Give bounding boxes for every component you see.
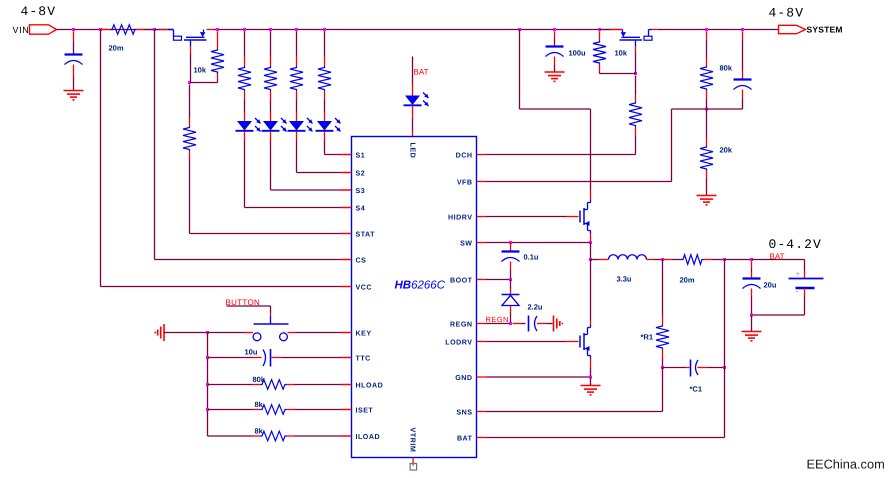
node junction 20m-right xyxy=(723,258,726,261)
node junction SW nmos xyxy=(589,241,592,244)
resistor STAT series xyxy=(183,126,196,151)
LED S1 xyxy=(316,118,341,132)
label 10k Q2 xyxy=(615,49,628,58)
wire rail to NMOS drain xyxy=(520,30,591,191)
wire SW down xyxy=(590,243,592,260)
ground power stage xyxy=(581,386,601,395)
capacitor 10u TTC leads xyxy=(208,357,352,359)
svg-text:HLOAD: HLOAD xyxy=(356,381,384,389)
node junction rail LED col S2 xyxy=(295,28,298,31)
node junction Q1 gate xyxy=(188,81,191,84)
svg-text:HIDRV: HIDRV xyxy=(448,213,472,221)
ground C-in xyxy=(64,91,84,100)
svg-text:ILOAD: ILOAD xyxy=(356,433,381,441)
capacitor 100u xyxy=(546,47,564,57)
LED S4 bottom lead xyxy=(244,131,246,207)
U1 VTRIM no-connect square xyxy=(410,464,417,471)
resistor 8k ILOAD leads xyxy=(208,435,352,437)
wire VCC horizontal xyxy=(101,286,342,288)
label 0-4.2V xyxy=(769,237,822,252)
wire Q4 source down xyxy=(590,368,592,378)
resistor LED col S1 leads xyxy=(324,31,326,99)
svg-text:0-4.2V: 0-4.2V xyxy=(769,237,822,252)
svg-text:SW: SW xyxy=(460,239,472,247)
transistor Q4 NMOS low xyxy=(580,321,591,368)
battery BT1 top lead xyxy=(804,260,806,279)
resistor 10k Q1-gate xyxy=(211,49,224,74)
label 20m xyxy=(109,44,124,53)
svg-text:SNS: SNS xyxy=(456,408,472,416)
U1 pin LED (top) xyxy=(408,143,417,159)
U1 left pins xyxy=(342,151,384,441)
wire STAT horizontal xyxy=(190,233,352,235)
U1 right pins xyxy=(445,151,486,442)
wire LED col S4 xyxy=(244,100,246,122)
LED S3 bottom lead xyxy=(270,131,272,190)
svg-text:20m: 20m xyxy=(109,44,124,53)
capacitor 2.2u leads xyxy=(513,323,553,325)
diode bootstrap leads xyxy=(510,280,512,324)
node junction VFB xyxy=(705,108,708,111)
wire CS horizontal xyxy=(155,259,342,261)
wire HIDRV xyxy=(487,216,579,218)
capacitor 10u TTC xyxy=(263,349,271,367)
label net REGN xyxy=(486,315,509,324)
wire Q1 gate down xyxy=(190,54,191,119)
label 2.2u xyxy=(528,303,543,312)
capacitor *C1 leads xyxy=(663,367,725,369)
node junction rail x154 xyxy=(153,28,156,31)
svg-text:+: + xyxy=(796,270,801,279)
wire SW to Q4 drain xyxy=(590,260,592,321)
resistor STAT series lead xyxy=(189,119,191,159)
wire 10k2 bottom to Q2 gate xyxy=(600,73,636,75)
resistor LED col S1 xyxy=(318,66,331,91)
label 8k ISET xyxy=(255,400,264,409)
resistor LED col S3 xyxy=(264,66,277,91)
wire REGN xyxy=(487,323,511,325)
LED S2 bottom lead xyxy=(296,131,298,172)
resistor LED col S2 leads xyxy=(296,31,298,99)
node junction bat gnd xyxy=(750,314,753,317)
svg-text:8k: 8k xyxy=(255,427,264,436)
wire VIN to rail xyxy=(57,29,174,31)
wire VFB node horizontal xyxy=(672,108,743,110)
wire battery to gnd node xyxy=(752,314,805,316)
resistor 8k ISET xyxy=(261,405,287,415)
LED S4 xyxy=(236,118,261,132)
svg-text:20m: 20m xyxy=(680,276,695,285)
svg-text:GND: GND xyxy=(455,374,472,382)
capacitor 0.1u xyxy=(502,252,520,262)
port SYSTEM xyxy=(779,25,843,35)
svg-text:80k: 80k xyxy=(720,64,733,73)
resistor 10k Q1-gate leads xyxy=(190,31,218,82)
svg-text:10u: 10u xyxy=(245,348,258,357)
wire SNS xyxy=(487,411,663,413)
VCC pin stub xyxy=(342,286,352,288)
capacitor 0.1u leads xyxy=(510,243,512,280)
inductor right lead xyxy=(647,259,663,261)
wire rail to CS vertical xyxy=(154,30,156,260)
node junction L-R1 xyxy=(661,258,664,261)
wire rail to VCC vertical xyxy=(100,30,102,287)
wire S4 to IC xyxy=(245,207,352,209)
svg-text:TTC: TTC xyxy=(356,354,371,362)
node junction SW cap xyxy=(509,241,512,244)
label 0.1u xyxy=(524,253,539,262)
wire to BAT node xyxy=(725,259,752,261)
LED status bottom lead xyxy=(412,106,414,137)
transistor Q2 PMOS xyxy=(600,30,660,74)
svg-text:LODRV: LODRV xyxy=(445,338,472,346)
resistor LED col S4 leads xyxy=(244,31,246,99)
svg-text:100u: 100u xyxy=(569,49,587,58)
svg-text:4-8V: 4-8V xyxy=(769,6,805,21)
ground REGN (sideways) xyxy=(554,316,563,332)
svg-text:VFB: VFB xyxy=(457,178,473,186)
wire to STAT pin xyxy=(189,159,191,234)
svg-text:-: - xyxy=(796,286,799,296)
LED S3 xyxy=(262,118,287,132)
wire SW out to inductor xyxy=(591,259,609,261)
svg-text:BAT: BAT xyxy=(414,68,429,77)
battery BT1 xyxy=(789,270,824,297)
capacitor 100u leads xyxy=(554,31,556,72)
node junction rail x519 xyxy=(518,28,521,31)
wire BAT up xyxy=(724,260,726,438)
svg-text:REGN: REGN xyxy=(450,320,473,328)
label 10k Q1 xyxy=(194,66,207,75)
wire BAT node to battery xyxy=(752,259,805,261)
svg-text:BAT: BAT xyxy=(770,252,785,261)
svg-text:20k: 20k xyxy=(720,146,733,155)
U1 pin VTRIM (bottom) xyxy=(408,428,417,453)
resistor 20m input lead xyxy=(101,29,155,31)
wire BOOT xyxy=(487,279,511,281)
resistor 8k ISET leads xyxy=(208,409,352,411)
wire gnd node down xyxy=(751,315,753,332)
button left lead xyxy=(208,332,254,334)
resistor *R1 xyxy=(656,325,669,350)
label EEChina.com xyxy=(807,457,885,472)
node junction rail x100 xyxy=(99,28,102,31)
resistor *R1 leads xyxy=(662,260,664,368)
svg-text:S4: S4 xyxy=(356,204,366,212)
capacitor VFB xyxy=(734,80,752,90)
ground KEY (sideways) xyxy=(155,324,164,341)
svg-text:2.2u: 2.2u xyxy=(528,303,543,312)
battery bottom lead xyxy=(804,288,806,315)
svg-text:BOOT: BOOT xyxy=(450,276,473,284)
label 20m out xyxy=(680,276,695,285)
resistor LED col S4 xyxy=(238,66,251,91)
capacitor C-in lead xyxy=(73,31,75,90)
svg-text:80k: 80k xyxy=(253,375,266,384)
svg-text:*C1: *C1 xyxy=(690,385,703,394)
label net BAT (battery) xyxy=(770,252,785,261)
node junction rail x217 xyxy=(216,28,219,31)
capacitor *C1 xyxy=(691,360,699,377)
resistor 80k HLOAD xyxy=(261,380,287,390)
node junction rail LED col S4 xyxy=(243,28,246,31)
transistor Q3 NMOS high xyxy=(580,191,591,242)
svg-text:SYSTEM: SYSTEM xyxy=(807,25,843,35)
wire LED col S3 xyxy=(270,100,272,122)
capacitor 2.2u xyxy=(529,316,538,332)
ground battery xyxy=(742,332,762,341)
svg-text:S1: S1 xyxy=(356,151,366,159)
svg-text:4-8V: 4-8V xyxy=(21,4,57,19)
node junction R1-C1 xyxy=(661,366,664,369)
wire S1 to IC xyxy=(325,154,352,156)
node junction rail 80k xyxy=(705,28,708,31)
LED S2 xyxy=(288,118,313,132)
resistor 20k leads xyxy=(706,109,708,196)
label 80k divider xyxy=(720,64,733,73)
node junction VIN cap xyxy=(72,28,75,31)
wire VFB to IC xyxy=(487,181,672,183)
label *C1 xyxy=(690,385,703,394)
label 4-8V input xyxy=(21,4,57,19)
svg-text:10k: 10k xyxy=(194,66,207,75)
wire GND xyxy=(487,376,591,378)
wire VFB vertical xyxy=(671,109,673,182)
svg-text:VTRIM: VTRIM xyxy=(408,428,417,453)
wire gnd lead xyxy=(590,377,592,386)
node junction rail cap742 xyxy=(741,28,744,31)
node junction HLOAD xyxy=(206,383,209,386)
svg-text:VIN: VIN xyxy=(13,25,30,35)
wire Q1 to rail2 xyxy=(214,29,623,31)
label 10u xyxy=(245,348,258,357)
CS pin stub xyxy=(342,259,352,261)
wire BUTTON label xyxy=(227,306,271,313)
op-amp U1 HB6266C body xyxy=(352,137,477,458)
label 4-8V system xyxy=(769,6,805,21)
wire rail to Q1 xyxy=(155,29,174,31)
svg-text:S2: S2 xyxy=(356,169,366,177)
wire gnd to KEY junction xyxy=(164,332,208,334)
svg-text:CS: CS xyxy=(356,256,367,264)
resistor 8k ILOAD xyxy=(261,431,287,441)
resistor 10k Q2-gate leads xyxy=(599,31,601,73)
svg-text:REGN: REGN xyxy=(486,315,509,324)
node junction Q2 gate xyxy=(634,72,637,75)
LED status xyxy=(404,93,429,107)
label *R1 xyxy=(641,333,654,342)
U1 VTRIM stub xyxy=(412,458,414,466)
svg-text:10k: 10k xyxy=(615,49,628,58)
svg-text:ISET: ISET xyxy=(356,406,374,414)
svg-text:KEY: KEY xyxy=(356,329,372,337)
resistor 80k divider leads xyxy=(706,31,708,108)
wire LODRV xyxy=(487,341,579,343)
node junction REGN xyxy=(509,322,512,325)
node junction BAT cap xyxy=(750,258,753,261)
wire button column down xyxy=(207,333,209,437)
svg-text:LED: LED xyxy=(408,143,417,159)
resistor 10k Q2-gate xyxy=(593,41,606,65)
wire SNS up xyxy=(662,368,664,412)
svg-text:S3: S3 xyxy=(356,187,366,195)
capacitor C-in xyxy=(65,55,83,65)
svg-text:BAT: BAT xyxy=(457,434,473,442)
svg-text:8k: 8k xyxy=(255,400,264,409)
wire S2 to IC xyxy=(297,172,352,174)
wire LED col S1 xyxy=(324,100,326,122)
wire BAT pin xyxy=(487,437,725,439)
label 3.3u xyxy=(617,275,632,284)
svg-text:DCH: DCH xyxy=(456,151,473,159)
wire SW horizontal xyxy=(487,242,591,244)
resistor 20m out xyxy=(682,255,704,265)
resistor DCH pull xyxy=(629,102,642,128)
node junction rail LED col S1 xyxy=(323,28,326,31)
wire DCH horizontal xyxy=(487,154,636,156)
node junction GND xyxy=(589,376,592,379)
resistor 20m input xyxy=(111,25,137,35)
svg-text:EEChina.com: EEChina.com xyxy=(807,457,885,472)
wire S3 to IC xyxy=(271,189,352,191)
wire BAT led top xyxy=(412,57,414,96)
resistor 80k divider xyxy=(700,66,713,91)
svg-text:VCC: VCC xyxy=(356,283,372,291)
inductor 3.3u xyxy=(609,255,647,260)
resistor LED col S2 xyxy=(290,66,303,91)
capacitor 20u leads xyxy=(751,261,753,315)
node junction TTC xyxy=(206,356,209,359)
resistor LED col S3 leads xyxy=(270,31,272,99)
svg-text:3.3u: 3.3u xyxy=(617,275,632,284)
svg-text:HB6266C: HB6266C xyxy=(395,280,446,292)
LED S1 bottom lead xyxy=(324,131,326,154)
capacitor 20u xyxy=(743,279,761,289)
label 80k HLOAD xyxy=(253,375,266,384)
node junction KEY xyxy=(206,331,209,334)
node junction SW out xyxy=(589,258,592,261)
resistor 20k xyxy=(700,146,713,171)
diode bootstrap xyxy=(502,295,520,306)
label 100u xyxy=(569,49,587,58)
label net BAT (led) xyxy=(414,68,429,77)
wire LED col S2 xyxy=(296,100,298,122)
port VIN xyxy=(13,25,57,35)
node junction rail 100u xyxy=(553,28,556,31)
ground 100u xyxy=(545,72,565,81)
node junction BOOT xyxy=(509,278,512,281)
label 8k ILOAD xyxy=(255,427,264,436)
node junction ISET xyxy=(206,408,209,411)
ground 20k xyxy=(697,196,717,205)
wire Q2 to SYSTEM xyxy=(659,29,779,31)
label net BUTTON xyxy=(226,298,261,307)
svg-text:20u: 20u xyxy=(764,281,777,290)
transistor Q1 PMOS xyxy=(161,30,216,54)
label 20k xyxy=(720,146,733,155)
svg-text:*R1: *R1 xyxy=(641,333,654,342)
resistor 80k HLOAD leads xyxy=(208,384,352,386)
resistor DCH leads xyxy=(635,76,637,155)
node junction C1-right xyxy=(723,366,726,369)
label 20u xyxy=(764,281,777,290)
node junction rail LED col S3 xyxy=(269,28,272,31)
resistor 20m out leads xyxy=(663,259,725,261)
button right lead xyxy=(288,332,352,334)
capacitor VFB leads xyxy=(742,31,744,109)
svg-text:0.1u: 0.1u xyxy=(524,253,539,262)
svg-text:STAT: STAT xyxy=(356,230,376,238)
node junction rail x599 xyxy=(598,28,601,31)
push button S1 (BUTTON) xyxy=(253,313,288,341)
